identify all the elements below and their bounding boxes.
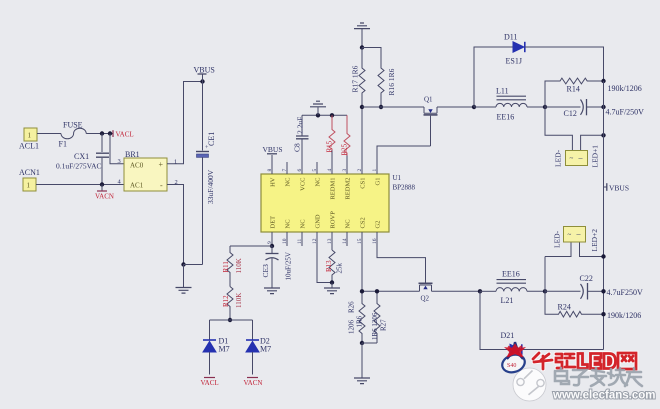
wire DET to R11 bbox=[230, 245, 272, 247]
wire CE1 bottom join bbox=[184, 264, 203, 266]
capacitor CX1 bbox=[56, 134, 109, 185]
pin 6 VCC bbox=[297, 140, 307, 191]
capacitor C22 bbox=[545, 274, 604, 300]
svg-text:VCC: VCC bbox=[300, 178, 307, 191]
inductor L11 EE16 bbox=[474, 87, 545, 122]
diode D1 M7 bbox=[203, 337, 230, 375]
resistor R13 bbox=[325, 250, 344, 283]
pin 2 CS1 bbox=[357, 107, 367, 189]
svg-text:LED-: LED- bbox=[553, 230, 562, 248]
junction D1 D2 node bbox=[228, 318, 232, 322]
wire Q2 drain to node bbox=[432, 290, 481, 292]
svg-text:NC: NC bbox=[315, 178, 322, 187]
resistor R14 bbox=[545, 78, 604, 107]
wire node to BR1 pin3 bbox=[110, 134, 124, 164]
wire D21 row bbox=[480, 291, 604, 349]
watermark text red outline bbox=[533, 353, 636, 369]
value 190k/1206 bottom bbox=[607, 311, 641, 320]
svg-text:10uF/25V: 10uF/25V bbox=[285, 252, 293, 280]
svg-text:D11: D11 bbox=[504, 33, 517, 42]
svg-text:CE3: CE3 bbox=[261, 264, 270, 278]
pin 13 ROVP bbox=[327, 211, 337, 250]
svg-text:EE16: EE16 bbox=[497, 113, 515, 122]
junction ground node bbox=[181, 262, 185, 266]
resistor R12 bbox=[222, 287, 243, 321]
bridge rectifier BR1 bbox=[124, 150, 167, 191]
connector ACN1 bbox=[19, 168, 40, 191]
svg-text:S40: S40 bbox=[507, 363, 516, 369]
pin 10 NC bbox=[282, 219, 292, 246]
svg-text:REDM1: REDM1 bbox=[330, 178, 337, 200]
svg-text:1: 1 bbox=[28, 132, 32, 140]
pin 7 NC bbox=[282, 162, 292, 187]
svg-text:AC0: AC0 bbox=[130, 162, 144, 170]
junction R16 bottom bbox=[379, 105, 383, 109]
svg-text:C22: C22 bbox=[580, 274, 593, 283]
svg-text:110K: 110K bbox=[235, 258, 243, 273]
svg-text:D21: D21 bbox=[501, 331, 515, 340]
svg-text:VACL: VACL bbox=[201, 379, 219, 387]
capacitor C12 bbox=[545, 99, 604, 118]
svg-text:190k/1206: 190k/1206 bbox=[608, 84, 642, 93]
svg-text:REDM2: REDM2 bbox=[345, 178, 352, 200]
svg-text:R15: R15 bbox=[326, 140, 334, 152]
diode D11 ES1J bbox=[504, 33, 525, 66]
svg-text:11: 11 bbox=[297, 238, 303, 244]
capacitor CE3 bbox=[261, 246, 293, 288]
wire CS1 rail to Q1 bbox=[362, 106, 424, 108]
svg-text:R14: R14 bbox=[567, 85, 580, 94]
power flag VBUS pin8 bbox=[263, 145, 283, 154]
ground R13 bbox=[324, 283, 340, 294]
pin 15 CS2 bbox=[357, 217, 367, 291]
fuse F1 bbox=[59, 121, 87, 149]
svg-text:R16 1R6: R16 1R6 bbox=[387, 68, 396, 95]
svg-text:DET: DET bbox=[270, 216, 277, 229]
pin 9 DET bbox=[267, 216, 277, 246]
svg-text:NC: NC bbox=[285, 178, 292, 187]
resistor R17 1R6 bbox=[351, 48, 366, 108]
ground main bbox=[176, 265, 192, 294]
pin 14 NC bbox=[342, 219, 352, 246]
svg-text:4.7uF250V: 4.7uF250V bbox=[607, 288, 643, 297]
svg-text:1R6 1206: 1R6 1206 bbox=[371, 312, 379, 340]
svg-text:CS2: CS2 bbox=[360, 217, 367, 228]
wire VCC rail bbox=[302, 114, 347, 116]
junction Q2 drain node bbox=[478, 289, 482, 293]
svg-text:4.7uF/250V: 4.7uF/250V bbox=[606, 108, 645, 117]
junction CS2 node bbox=[360, 289, 364, 293]
svg-text:VACN: VACN bbox=[95, 193, 114, 201]
capacitor CE1 bbox=[196, 82, 216, 265]
junction L21 C22 node bbox=[543, 289, 547, 293]
svg-text:2: 2 bbox=[357, 169, 363, 172]
junction rail-R15 bbox=[330, 113, 334, 117]
transistor Q1 bbox=[424, 96, 438, 147]
svg-text:13: 13 bbox=[327, 238, 333, 244]
svg-text:R24: R24 bbox=[558, 303, 571, 312]
svg-text:190k/1206: 190k/1206 bbox=[607, 311, 641, 320]
svg-text:12: 12 bbox=[312, 238, 318, 244]
svg-text:10: 10 bbox=[282, 238, 288, 244]
svg-text:www.elecfans.com: www.elecfans.com bbox=[552, 390, 655, 402]
svg-text:R26: R26 bbox=[348, 301, 356, 313]
svg-text:2.2uF: 2.2uF bbox=[296, 117, 305, 134]
svg-text:1: 1 bbox=[174, 159, 177, 166]
power flag VACL bbox=[113, 130, 134, 138]
ground above R17 bbox=[354, 23, 370, 48]
resistor R11 bbox=[222, 246, 243, 287]
resistor R25 bbox=[341, 115, 351, 155]
svg-text:L11: L11 bbox=[496, 87, 509, 96]
junction R26 R27 bottom bbox=[360, 341, 364, 345]
resistor R27 bbox=[371, 291, 388, 343]
junction rail-ground bbox=[316, 113, 320, 117]
svg-text:ES1J: ES1J bbox=[506, 57, 522, 66]
value 4.7uF/250V top bbox=[606, 108, 645, 117]
diode D2 M7 bbox=[246, 337, 271, 375]
svg-text:R27: R27 bbox=[380, 319, 388, 331]
wire D11 to rail bbox=[525, 47, 604, 81]
svg-text:LED-: LED- bbox=[554, 149, 563, 167]
svg-text:4: 4 bbox=[327, 169, 333, 172]
wire node to D11 bbox=[474, 47, 513, 107]
resistor R26 bbox=[348, 291, 366, 343]
junction CX1 bottom bbox=[100, 182, 104, 186]
wire right rail bbox=[603, 81, 605, 350]
svg-text:C12: C12 bbox=[564, 109, 577, 118]
inductor L21 EE16 bbox=[480, 270, 545, 306]
svg-text:VACN: VACN bbox=[244, 379, 263, 387]
junction Q1 drain node bbox=[472, 105, 476, 109]
pin number 4 bbox=[118, 179, 122, 186]
svg-text:BP2888: BP2888 bbox=[393, 184, 416, 192]
svg-text:NC: NC bbox=[285, 219, 292, 228]
connector LED2 bbox=[553, 227, 600, 252]
wire CS2 rail to Q2 bbox=[362, 290, 420, 292]
svg-text:VBUS: VBUS bbox=[609, 184, 629, 193]
svg-text:16: 16 bbox=[372, 238, 378, 244]
connector ACL1 bbox=[19, 128, 39, 151]
svg-text:R25: R25 bbox=[341, 143, 349, 155]
svg-text:VACL: VACL bbox=[116, 131, 134, 139]
value 190k/1206 top bbox=[608, 84, 642, 93]
wire ACN1 to BR1 pin4 bbox=[36, 184, 124, 186]
junction L11 C12 node bbox=[543, 105, 547, 109]
transistor Q2 bbox=[419, 283, 433, 302]
svg-text:L21: L21 bbox=[501, 296, 514, 305]
junction CX1 top bbox=[100, 131, 104, 135]
junction LED1 rail bbox=[601, 133, 605, 137]
svg-text:15: 15 bbox=[357, 238, 363, 244]
wire fuse to node VACL bbox=[86, 133, 112, 135]
svg-text:3: 3 bbox=[342, 169, 348, 172]
svg-text:6: 6 bbox=[297, 169, 303, 172]
svg-text:3: 3 bbox=[118, 158, 121, 165]
svg-text:ACN1: ACN1 bbox=[19, 168, 40, 177]
junction LED2 rail bbox=[601, 254, 605, 258]
connector LED1 bbox=[554, 145, 600, 168]
watermark logo circle bbox=[513, 368, 546, 401]
svg-text:Q1: Q1 bbox=[424, 96, 433, 104]
power flag VACL bottom bbox=[201, 378, 219, 388]
wire ACL1 to fuse F1 bbox=[37, 133, 61, 135]
junction R17 bottom CS1 bbox=[360, 105, 364, 109]
junction C22 rail bbox=[601, 289, 605, 293]
watermark text gray bbox=[555, 368, 642, 386]
svg-text:EE16: EE16 bbox=[502, 270, 520, 279]
svg-text:8: 8 bbox=[267, 169, 273, 172]
watermark logo ring bbox=[500, 352, 527, 375]
op-amp U1 BP2888 body bbox=[261, 174, 416, 232]
svg-text:VBUS: VBUS bbox=[194, 66, 215, 75]
svg-text:R13: R13 bbox=[325, 260, 333, 272]
power flag VACN bottom bbox=[244, 378, 263, 388]
wire LED1 row bbox=[545, 107, 604, 151]
wire LED2 row bbox=[545, 242, 604, 291]
watermark url bbox=[552, 390, 655, 402]
svg-text:CS1: CS1 bbox=[360, 178, 367, 189]
power flag VACN bbox=[95, 185, 114, 201]
svg-text:C8: C8 bbox=[293, 143, 302, 152]
svg-text:NC: NC bbox=[300, 219, 307, 228]
svg-text:F1: F1 bbox=[59, 140, 67, 149]
junction R24 rail bbox=[601, 312, 605, 316]
svg-text:1: 1 bbox=[27, 182, 31, 190]
wire BR1 pin2 to ground bbox=[167, 185, 184, 265]
pin number 2 bbox=[175, 179, 178, 186]
svg-text:AC1: AC1 bbox=[130, 182, 144, 190]
junction R14 rail bbox=[601, 79, 605, 83]
ground CE3 bbox=[264, 288, 280, 294]
resistor R24 bbox=[545, 291, 604, 317]
diode D21 bbox=[501, 331, 522, 355]
wire D1 D2 rail bbox=[210, 320, 253, 340]
svg-text:HV: HV bbox=[270, 177, 277, 187]
wire R27 join bbox=[362, 342, 377, 344]
svg-text:0.1uF/275VAC: 0.1uF/275VAC bbox=[56, 162, 102, 171]
svg-text:1: 1 bbox=[372, 169, 378, 172]
pin number 3 bbox=[118, 158, 121, 165]
wire BR1 pin1 to VBUS node bbox=[167, 82, 203, 164]
svg-text:1206: 1206 bbox=[348, 320, 356, 335]
ground R26 R27 bbox=[354, 343, 370, 384]
pin 5 NC bbox=[312, 162, 322, 187]
svg-text:5: 5 bbox=[312, 169, 318, 172]
resistor R16 1R6 bbox=[362, 48, 396, 108]
svg-text:~: ~ bbox=[568, 231, 572, 239]
junction R13 ground bbox=[330, 280, 334, 284]
junction R27 top bbox=[375, 289, 379, 293]
junction DET node bbox=[270, 244, 274, 248]
svg-text:-: - bbox=[160, 181, 163, 190]
pin 1 G1 bbox=[372, 146, 431, 185]
svg-text:LED+1: LED+1 bbox=[591, 145, 600, 168]
svg-text:NC: NC bbox=[345, 219, 352, 228]
watermark logo star bbox=[504, 342, 526, 359]
svg-text:CX1: CX1 bbox=[74, 152, 89, 161]
svg-text:U1: U1 bbox=[393, 174, 402, 182]
svg-text:ACL1: ACL1 bbox=[19, 142, 39, 151]
capacitor C8 bbox=[293, 115, 309, 152]
svg-text:LED+2: LED+2 bbox=[590, 229, 599, 252]
power flag VBUS left bbox=[194, 66, 215, 82]
pin 8 HV bbox=[267, 155, 277, 187]
resistor R15 bbox=[326, 115, 336, 152]
svg-text:ROVP: ROVP bbox=[330, 211, 337, 229]
svg-text:110K: 110K bbox=[235, 293, 243, 308]
pin number 1 bbox=[174, 159, 177, 166]
svg-text:R12: R12 bbox=[222, 295, 230, 307]
junction R17 R16 top bbox=[360, 45, 364, 49]
wire Q1 drain to node bbox=[437, 106, 474, 108]
svg-text:14: 14 bbox=[342, 238, 348, 244]
svg-text:25k: 25k bbox=[336, 263, 344, 274]
svg-text:GND: GND bbox=[315, 214, 322, 228]
svg-text:R11: R11 bbox=[222, 261, 230, 273]
svg-text:BR1: BR1 bbox=[125, 150, 140, 159]
svg-text:FUSE: FUSE bbox=[63, 121, 83, 130]
svg-text:1R6: 1R6 bbox=[356, 315, 364, 327]
junction BR1 pin3 branch bbox=[108, 131, 112, 135]
watermark text red bbox=[533, 353, 636, 369]
svg-text:Q2: Q2 bbox=[421, 295, 430, 303]
svg-text:G2: G2 bbox=[375, 221, 382, 229]
svg-text:G1: G1 bbox=[375, 178, 382, 186]
ground above rail bbox=[310, 101, 326, 115]
junction VBUS node bbox=[200, 79, 204, 83]
svg-text:R17 1R6: R17 1R6 bbox=[351, 65, 360, 92]
svg-text:33uF/400V: 33uF/400V bbox=[206, 169, 215, 204]
svg-text:M7: M7 bbox=[219, 345, 230, 354]
pin 12 GND bbox=[312, 214, 332, 282]
svg-text:7: 7 bbox=[282, 169, 288, 172]
svg-text:CE1: CE1 bbox=[207, 132, 216, 146]
pin 3 REDM2 bbox=[342, 156, 352, 200]
pin 4 REDM1 bbox=[327, 151, 337, 200]
power flag VBUS right bbox=[604, 183, 630, 192]
pin 11 NC bbox=[297, 219, 307, 246]
value 4.7uF250V bottom bbox=[607, 288, 643, 297]
pin 16 G2 bbox=[372, 221, 426, 283]
svg-text:VBUS: VBUS bbox=[263, 145, 283, 154]
svg-text:~: ~ bbox=[570, 155, 574, 163]
svg-text:+: + bbox=[159, 160, 164, 169]
svg-text:9: 9 bbox=[267, 241, 273, 244]
svg-text:M7: M7 bbox=[260, 345, 271, 354]
junction C12 rail bbox=[601, 105, 605, 109]
